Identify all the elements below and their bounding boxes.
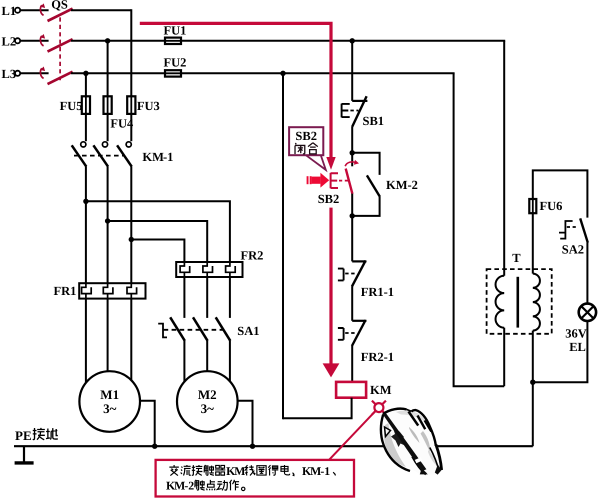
svg-text:FU5: FU5 (60, 99, 83, 113)
ground symbol PE (23, 446, 25, 461)
wire phase A to M1 (85, 299, 87, 384)
switch SA1 pole 1 (183, 277, 185, 318)
terminal L3 (15, 71, 20, 76)
callout pointer wedge (306, 155, 326, 170)
wire PE ground rail (14, 445, 533, 447)
wire phase C to M1 (130, 299, 132, 384)
transformer T dashed enclosure (487, 269, 552, 334)
svg-text:KM: KM (142, 150, 164, 164)
wire L3 after QS (71, 72, 165, 74)
svg-text:QS: QS (51, 0, 68, 12)
wire FU6 up and across to SA2 branch (533, 170, 588, 217)
svg-text:-2: -2 (408, 178, 418, 192)
svg-text:FR1-1: FR1-1 (361, 285, 394, 299)
svg-text:M: M (234, 464, 245, 478)
junction L3 row to FU5 (83, 71, 88, 76)
svg-text:FR2: FR2 (241, 248, 264, 262)
transformer T secondary winding (533, 274, 540, 331)
wire L3 drop to FU5 (85, 73, 87, 96)
annotation red current path top (140, 23, 331, 157)
svg-text:FU6: FU6 (540, 199, 563, 213)
wire branch C to M2 column (131, 240, 184, 263)
junction FU1 row / control line (350, 38, 355, 43)
motor M1 (79, 371, 140, 432)
wire control return rail (282, 73, 284, 419)
contactor KM-1 pole 1 (81, 142, 86, 147)
terminal L1 (15, 8, 20, 13)
QS linkage dashed line (59, 17, 61, 80)
switch QS blade 3 (48, 72, 73, 84)
QS operating arrow 3 (40, 68, 43, 78)
junction L2 row to FU4 (105, 38, 110, 43)
wire M1 to PE rail (140, 401, 155, 447)
contactor KM-1 pole 3 (126, 142, 131, 147)
junction M1 on PE rail (152, 444, 157, 449)
svg-text:-1: -1 (163, 150, 173, 164)
contactor coil KM (336, 382, 366, 398)
wire KM coil to return rail (283, 398, 352, 419)
callout box SB2 闭合 (289, 127, 323, 155)
lamp EL (579, 304, 596, 321)
QS operating arrow 1 (40, 5, 43, 15)
annotation press arrow at SB2 (307, 173, 330, 188)
thermal relay FR1 heaters (79, 283, 145, 298)
svg-text:L1: L1 (2, 4, 17, 18)
svg-text:M1: M1 (100, 387, 119, 402)
wire secondary to PE rail (532, 382, 534, 446)
wire below FU3 (130, 114, 132, 141)
terminal L2 (15, 38, 20, 43)
wire SB2 to FR1-1 (351, 194, 353, 262)
transformer T core bar (516, 277, 519, 328)
motor M2 (177, 371, 238, 432)
wire L1 corner down to FU3 (130, 9, 132, 96)
svg-text:SA2: SA2 (562, 242, 584, 256)
svg-text:KM: KM (370, 383, 392, 397)
wire FU1 row to transformer primary (503, 41, 505, 276)
wire branch A to M2 column (86, 201, 230, 262)
svg-text:FU3: FU3 (137, 99, 160, 113)
junction secondary return (530, 380, 535, 385)
wire below FU4 (107, 114, 109, 141)
wire FU2 row to right (181, 72, 455, 74)
wire L1 after QS (71, 9, 131, 11)
svg-text:SB2: SB2 (295, 129, 317, 143)
svg-text:FR1: FR1 (54, 284, 77, 298)
note box (156, 460, 354, 497)
svg-text:2: 2 (188, 479, 194, 493)
wire FR1-1 to FR2-1 (351, 286, 353, 320)
fuse FU2 (164, 72, 182, 74)
wire L2 drop to FU4 (107, 41, 109, 97)
svg-text:T: T (512, 251, 521, 265)
svg-text:FU2: FU2 (164, 56, 187, 70)
annotation red current path lower (329, 208, 332, 364)
wire FU1 row to control junction (181, 40, 505, 42)
svg-text:36V: 36V (565, 326, 587, 340)
svg-text:KM: KM (386, 178, 408, 192)
wire lamp to secondary return (533, 321, 588, 382)
QS operating arrow 2 (40, 36, 43, 46)
wire L2 after QS (71, 40, 165, 42)
wire branch B to M2 column (108, 221, 208, 262)
wire control line from FU1 row to SB1 (351, 41, 353, 101)
svg-text:FR2-1: FR2-1 (361, 350, 394, 364)
svg-text:FU1: FU1 (164, 23, 187, 37)
thermal relay FR2 heaters (176, 262, 242, 277)
wire FR2-1 to KM coil (351, 346, 353, 382)
wire phase A down to FR1 (85, 166, 87, 283)
note text line 1 (169, 465, 178, 476)
switch SA1 pole 2 (206, 277, 208, 318)
fuse FU4 (107, 95, 109, 115)
annotation leader line to note box (329, 411, 375, 460)
junction M2 on PE rail (250, 444, 255, 449)
fuse FU1 (164, 40, 182, 42)
wire SA2 to lamp EL (586, 242, 588, 303)
junction FU2 row / control return (280, 71, 285, 76)
svg-text:EL: EL (569, 340, 586, 354)
svg-text:3~: 3~ (103, 401, 117, 416)
wire phase B down to FR1 (107, 166, 109, 283)
SB2 closing motion arc (345, 162, 356, 166)
SA1 handle (158, 324, 167, 338)
auxiliary contact KM-2 (NO) (352, 153, 379, 175)
wire L1 to QS (20, 9, 48, 11)
switch SA1 pole 3 (229, 277, 231, 318)
switch SA2 (580, 218, 588, 242)
svg-text:1: 1 (324, 464, 330, 478)
SA1 linkage dashed line (164, 329, 225, 331)
svg-text:SB1: SB1 (363, 114, 385, 128)
transformer T primary winding (496, 276, 505, 328)
svg-text:L2: L2 (2, 34, 17, 48)
wire L3 to QS (20, 72, 48, 74)
switch QS blade 1 (48, 9, 73, 21)
pushbutton SB2 (NO start, shown pressed, red) (346, 169, 353, 194)
svg-text:M2: M2 (198, 387, 217, 402)
pushbutton SB1 (NC stop) (352, 100, 367, 102)
wire SB1 to SB2 (351, 127, 353, 167)
svg-text:3~: 3~ (201, 401, 215, 416)
svg-text:SA1: SA1 (237, 324, 259, 338)
wire M2 to PE rail (238, 401, 253, 447)
fuse FU3 (130, 95, 132, 115)
switch QS blade 2 (48, 39, 73, 51)
svg-text:PE: PE (15, 428, 32, 443)
junction phase A branch (83, 199, 88, 204)
svg-text:SB2: SB2 (318, 192, 340, 206)
fuse FU5 (85, 95, 87, 115)
wire primary winding bottom lead (503, 328, 505, 387)
junction phase B branch (105, 218, 110, 223)
junction KM-2 bottom (350, 213, 355, 218)
wire phase B to M1 (107, 299, 109, 372)
junction phase C branch (129, 237, 134, 242)
annotation X marker at KM coil node (372, 401, 386, 415)
thermal contact FR2-1 (NC) (352, 320, 366, 322)
wire FU2 row to primary return (454, 73, 505, 386)
thermal contact FR1-1 (NC) (352, 260, 366, 262)
wire secondary top lead to FU6 (532, 213, 534, 273)
wire below FU5 (85, 114, 87, 141)
wire phase C down to FR1 (130, 166, 132, 283)
junction SB2 top / KM-2 branch (350, 150, 355, 155)
fuse FU6 (532, 198, 534, 214)
wire secondary bottom lead (532, 331, 534, 383)
wire L2 to QS (20, 40, 48, 42)
KM-1 linkage dashed line (74, 155, 125, 157)
svg-text:L3: L3 (2, 67, 17, 81)
contactor KM-1 pole 2 (102, 142, 107, 147)
hand with pen illustration (381, 409, 442, 475)
